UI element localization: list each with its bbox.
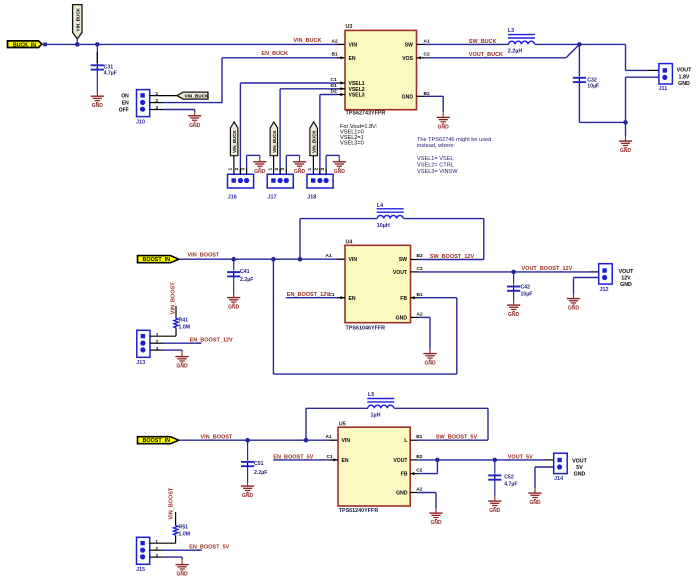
wire node to C32 bbox=[578, 44, 580, 76]
note For Vout bbox=[340, 124, 378, 147]
svg-text:U5: U5 bbox=[339, 422, 346, 428]
svg-text:3: 3 bbox=[156, 346, 159, 352]
capacitor C32 bbox=[573, 76, 586, 82]
svg-text:TPS62743YFPR: TPS62743YFPR bbox=[346, 111, 386, 117]
svg-text:VOUT_5V: VOUT_5V bbox=[508, 454, 533, 460]
op-amp U5 TPS61240YFFR bbox=[326, 422, 423, 514]
svg-text:1.8V: 1.8V bbox=[679, 74, 690, 80]
junction bbox=[511, 270, 516, 275]
connector J10 bbox=[119, 90, 159, 126]
inductor L3 bbox=[508, 28, 535, 54]
connector J11 bbox=[659, 64, 693, 92]
svg-text:EN_BOOST_12V: EN_BOOST_12V bbox=[190, 338, 233, 344]
flag VIN_BUCK at J16 bbox=[230, 122, 238, 156]
ground bbox=[429, 508, 442, 526]
svg-text:instead, where:: instead, where: bbox=[417, 143, 455, 149]
junction bbox=[245, 438, 250, 443]
svg-text:VIN_BOOST: VIN_BOOST bbox=[201, 435, 233, 441]
svg-text:VOUT_BOOST_12V: VOUT_BOOST_12V bbox=[522, 266, 573, 272]
svg-text:EN: EN bbox=[349, 56, 356, 62]
wire to C42 bbox=[513, 272, 515, 285]
svg-text:B1: B1 bbox=[416, 434, 422, 440]
svg-text:D1: D1 bbox=[331, 83, 337, 89]
svg-text:C2: C2 bbox=[416, 468, 422, 474]
svg-text:2.2µH: 2.2µH bbox=[508, 48, 523, 54]
ground bbox=[241, 481, 254, 499]
ground bbox=[253, 157, 266, 175]
svg-text:2: 2 bbox=[234, 168, 240, 171]
svg-text:EN_BUCK: EN_BUCK bbox=[261, 51, 288, 57]
ground bbox=[423, 348, 436, 366]
svg-text:FB: FB bbox=[401, 472, 408, 478]
wire SW_BOOST_12V bbox=[411, 259, 484, 261]
svg-text:GND: GND bbox=[620, 282, 632, 288]
svg-text:VIN: VIN bbox=[342, 438, 351, 444]
svg-text:R41: R41 bbox=[179, 318, 189, 324]
svg-text:1: 1 bbox=[267, 168, 273, 171]
svg-text:C2: C2 bbox=[424, 51, 430, 57]
wire VOUT_BOOST_12V bbox=[411, 271, 599, 273]
wire J10 pin3 to gnd bbox=[150, 110, 195, 112]
svg-text:J17: J17 bbox=[268, 194, 277, 200]
wire VIN_BOOST main bbox=[179, 439, 330, 441]
svg-text:EN_BOOST_12V: EN_BOOST_12V bbox=[287, 292, 330, 298]
svg-text:TPS61240YFFR: TPS61240YFFR bbox=[339, 508, 379, 514]
flag VIN_BUCK at J17 bbox=[270, 122, 278, 156]
svg-text:EN_BOOST_5V: EN_BOOST_5V bbox=[189, 545, 229, 551]
wire J13 pin2 EN_BOOST_12V bbox=[150, 342, 202, 344]
svg-text:VOS: VOS bbox=[402, 56, 413, 62]
svg-text:OFF: OFF bbox=[119, 108, 129, 114]
svg-text:VIN_BOOST: VIN_BOOST bbox=[188, 253, 220, 259]
svg-text:10µF: 10µF bbox=[521, 291, 533, 297]
svg-text:VIN_BUCK: VIN_BUCK bbox=[312, 130, 317, 153]
svg-text:1: 1 bbox=[155, 539, 158, 545]
wire U3 GND pin bbox=[417, 96, 444, 112]
svg-text:VOUT: VOUT bbox=[677, 68, 692, 74]
ground bbox=[507, 300, 520, 318]
svg-text:VOUT: VOUT bbox=[393, 270, 408, 276]
svg-text:VIN_BUCK: VIN_BUCK bbox=[185, 94, 210, 99]
svg-text:FB: FB bbox=[400, 296, 407, 302]
svg-text:2: 2 bbox=[314, 168, 320, 171]
svg-text:A2: A2 bbox=[332, 38, 338, 44]
ground bbox=[619, 136, 632, 154]
wire VSEL1 bbox=[240, 81, 345, 174]
svg-text:TPS61046YFFR: TPS61046YFFR bbox=[346, 326, 386, 332]
wire J13 pin3 to gnd bbox=[150, 350, 182, 351]
inductor L4 bbox=[377, 203, 404, 229]
svg-text:J11: J11 bbox=[659, 86, 668, 92]
svg-text:BOOST_IN: BOOST_IN bbox=[143, 438, 171, 444]
ground bbox=[488, 496, 501, 514]
svg-text:VOUT: VOUT bbox=[572, 458, 587, 464]
junction bbox=[75, 42, 80, 47]
wire C31 to gnd bbox=[96, 70, 98, 91]
svg-text:J15: J15 bbox=[136, 567, 145, 573]
svg-text:C32: C32 bbox=[587, 77, 597, 83]
wire L5 branch bbox=[306, 408, 488, 440]
svg-text:3: 3 bbox=[240, 168, 246, 171]
svg-text:5V: 5V bbox=[576, 465, 583, 471]
wire VOUT_BUCK (VOS) bbox=[417, 44, 580, 59]
wire EN_BUCK from J10 pin2 bbox=[150, 56, 345, 103]
svg-text:3: 3 bbox=[155, 553, 158, 559]
svg-text:J14: J14 bbox=[554, 476, 563, 482]
svg-text:VSEL3= VINSW: VSEL3= VINSW bbox=[417, 169, 458, 175]
capacitor C52 bbox=[488, 474, 501, 480]
junction bbox=[231, 257, 236, 262]
svg-text:B2: B2 bbox=[417, 253, 423, 259]
svg-text:VOUT_BUCK: VOUT_BUCK bbox=[469, 52, 503, 58]
svg-text:R51: R51 bbox=[179, 525, 189, 531]
svg-text:1.0M: 1.0M bbox=[179, 324, 191, 330]
port BUCK_IN bbox=[8, 41, 48, 48]
connector J17 bbox=[267, 155, 293, 200]
wire VIN_BOOST main bbox=[179, 258, 337, 260]
wire FB loop bbox=[273, 259, 456, 374]
svg-text:VIN_BUCK: VIN_BUCK bbox=[272, 130, 277, 153]
wire J15 pin2 EN_BOOST_5V bbox=[150, 549, 202, 551]
svg-text:EN: EN bbox=[349, 296, 356, 302]
junction bbox=[95, 42, 100, 47]
svg-text:12V: 12V bbox=[621, 276, 631, 282]
svg-text:VIN: VIN bbox=[349, 257, 358, 263]
connector J16 bbox=[228, 155, 254, 200]
svg-text:VOUT: VOUT bbox=[619, 269, 634, 275]
svg-text:J12: J12 bbox=[600, 287, 609, 293]
vertical net VIN_BOOST at R41 bbox=[171, 282, 177, 318]
svg-text:SW: SW bbox=[405, 42, 413, 48]
wire L4 branch bbox=[300, 219, 484, 260]
ground bbox=[188, 111, 201, 129]
wire EN_BOOST_5V to U5 EN bbox=[273, 458, 338, 461]
svg-text:BUCK_IN: BUCK_IN bbox=[13, 42, 36, 48]
svg-text:2.2µF: 2.2µF bbox=[240, 277, 253, 283]
svg-text:BOOST_IN: BOOST_IN bbox=[143, 257, 171, 263]
svg-text:VSEL3=0: VSEL3=0 bbox=[340, 141, 364, 147]
svg-text:VIN: VIN bbox=[349, 42, 358, 48]
flag VIN_BUCK top bbox=[73, 5, 82, 45]
svg-text:A1: A1 bbox=[326, 253, 332, 259]
junction bbox=[623, 120, 628, 125]
svg-text:3: 3 bbox=[320, 168, 326, 171]
port BOOST_IN bbox=[138, 437, 179, 445]
svg-text:GND: GND bbox=[396, 316, 408, 322]
wire to C51 bbox=[247, 440, 249, 460]
wire node to J11 pin1 bbox=[579, 44, 659, 70]
wire J15 pin1 to R51 bbox=[150, 542, 176, 544]
resistor R51 bbox=[173, 525, 190, 544]
svg-text:C42: C42 bbox=[521, 284, 531, 290]
capacitor C31 bbox=[91, 64, 104, 70]
op-amp U4 TPS61046YFFR bbox=[326, 240, 423, 332]
resistor R41 bbox=[174, 318, 190, 337]
ground bbox=[91, 91, 104, 109]
wire to C31 bbox=[96, 44, 98, 63]
wire U4 GND pin bbox=[411, 317, 431, 348]
svg-text:L5: L5 bbox=[368, 392, 374, 398]
connector J18 bbox=[307, 155, 333, 200]
svg-text:GND: GND bbox=[678, 81, 690, 87]
pin stub U5 VIN bbox=[330, 439, 338, 441]
wire VSEL3 bbox=[320, 93, 345, 174]
svg-text:1: 1 bbox=[228, 168, 234, 171]
svg-text:VIN_BUCK: VIN_BUCK bbox=[232, 130, 237, 153]
svg-text:2: 2 bbox=[274, 168, 280, 171]
svg-text:4.7µF: 4.7µF bbox=[504, 482, 517, 488]
ground bbox=[567, 293, 580, 311]
wire SW_BOOST_5V (L pin) bbox=[410, 439, 488, 441]
wire to C52 bbox=[494, 460, 496, 474]
svg-text:SW_BUCK: SW_BUCK bbox=[469, 39, 497, 45]
svg-text:C41: C41 bbox=[240, 269, 250, 275]
svg-text:10µF: 10µF bbox=[587, 84, 599, 90]
junction bbox=[493, 458, 498, 463]
ground bbox=[293, 157, 306, 175]
wire FB to VOUT node bbox=[410, 460, 437, 475]
wire J15 pin3 to gnd bbox=[150, 557, 182, 559]
wire J14 pin2 to gnd bbox=[535, 467, 554, 488]
svg-text:U3: U3 bbox=[346, 24, 353, 30]
svg-text:C51: C51 bbox=[254, 461, 264, 467]
ground bbox=[175, 351, 188, 369]
svg-text:L: L bbox=[404, 438, 407, 444]
wire L3 to output node bbox=[535, 43, 579, 45]
svg-text:C1: C1 bbox=[331, 77, 337, 83]
wire J12 pin2 to gnd bbox=[574, 278, 599, 294]
junction bbox=[271, 257, 276, 262]
svg-text:1: 1 bbox=[307, 168, 313, 171]
svg-text:SW_BOOST_12V: SW_BOOST_12V bbox=[430, 254, 475, 260]
wire VSEL2 bbox=[280, 87, 345, 174]
junction output node bbox=[577, 42, 582, 47]
wire C52 to gnd bbox=[494, 480, 496, 496]
svg-text:VOUT: VOUT bbox=[393, 458, 408, 464]
wire C32 bottom loop bbox=[579, 77, 659, 136]
svg-text:2: 2 bbox=[155, 546, 158, 552]
wire U5 GND pin bbox=[410, 493, 436, 509]
svg-text:J10: J10 bbox=[136, 119, 145, 125]
svg-text:VIN_BUCK: VIN_BUCK bbox=[76, 7, 81, 31]
svg-text:ON: ON bbox=[121, 94, 129, 100]
svg-text:VIN_BOOST: VIN_BOOST bbox=[169, 487, 175, 519]
svg-text:J18: J18 bbox=[307, 194, 316, 200]
svg-text:GND: GND bbox=[396, 491, 408, 497]
svg-text:EN_BOOST_5V: EN_BOOST_5V bbox=[273, 454, 313, 460]
wire C41 to gnd bbox=[233, 276, 235, 292]
ground bbox=[176, 559, 189, 577]
wire J16 pin3 to gnd bbox=[247, 155, 260, 156]
port BOOST_IN bbox=[138, 256, 179, 264]
flag VIN_BUCK at J10 bbox=[177, 92, 209, 99]
svg-text:2: 2 bbox=[156, 339, 159, 345]
svg-text:1µH: 1µH bbox=[371, 413, 381, 419]
svg-text:GND: GND bbox=[574, 472, 586, 478]
svg-text:A1: A1 bbox=[326, 434, 332, 440]
svg-text:EN: EN bbox=[122, 101, 129, 107]
inductor L5 bbox=[367, 392, 394, 419]
capacitor C41 bbox=[227, 271, 240, 277]
svg-text:GND: GND bbox=[402, 94, 414, 100]
svg-text:B1: B1 bbox=[332, 51, 338, 57]
svg-text:VIN_BUCK: VIN_BUCK bbox=[293, 38, 321, 44]
svg-text:2.2µF: 2.2µF bbox=[254, 470, 267, 476]
pin stub U4 VIN bbox=[337, 258, 345, 260]
vertical net VIN_BOOST at R51 bbox=[169, 487, 176, 525]
wire J17 pin3 to gnd bbox=[286, 155, 299, 156]
svg-text:3: 3 bbox=[280, 168, 286, 171]
note TPS62746 bbox=[417, 137, 491, 175]
svg-text:10µH: 10µH bbox=[377, 223, 390, 229]
wire EN_BOOST_12V to U4 EN bbox=[286, 296, 345, 299]
wire C42 to gnd bbox=[513, 291, 515, 300]
svg-text:L3: L3 bbox=[508, 28, 514, 34]
junction bbox=[435, 458, 440, 463]
svg-text:VSEL2= CTRL: VSEL2= CTRL bbox=[417, 163, 454, 169]
svg-text:A1: A1 bbox=[424, 38, 430, 44]
wire J13 pin1 to R41 bbox=[150, 335, 176, 337]
wire SW_BUCK bbox=[417, 43, 509, 45]
svg-text:L4: L4 bbox=[377, 203, 383, 209]
svg-text:4.7µF: 4.7µF bbox=[104, 70, 117, 76]
connector J14 bbox=[554, 453, 588, 482]
capacitor C51 bbox=[241, 461, 254, 467]
svg-text:SW_BOOST_5V: SW_BOOST_5V bbox=[436, 435, 478, 441]
ground bbox=[333, 157, 346, 175]
svg-text:SW: SW bbox=[399, 257, 407, 263]
ground bbox=[437, 112, 450, 130]
svg-text:1: 1 bbox=[156, 332, 159, 338]
wire to C41 bbox=[233, 259, 235, 270]
ground bbox=[227, 292, 240, 310]
svg-text:U4: U4 bbox=[346, 240, 353, 246]
junction bbox=[304, 438, 309, 443]
svg-text:J13: J13 bbox=[136, 360, 145, 366]
capacitor C42 bbox=[507, 285, 520, 291]
op-amp U3 TPS62743YFPR bbox=[331, 24, 430, 116]
junction bbox=[298, 257, 303, 262]
svg-text:VSEL3: VSEL3 bbox=[349, 93, 365, 99]
wire J18 pin3 to gnd bbox=[326, 155, 339, 156]
connector J13 bbox=[136, 330, 158, 366]
flag VIN_BUCK at J18 bbox=[310, 122, 318, 156]
ground bbox=[528, 488, 541, 506]
connector J12 bbox=[599, 264, 634, 293]
pin stub U3 VIN bbox=[337, 43, 345, 45]
svg-text:VSEL1= VSEL: VSEL1= VSEL bbox=[417, 156, 454, 162]
svg-text:A2: A2 bbox=[416, 486, 422, 492]
svg-text:1.0M: 1.0M bbox=[179, 531, 191, 537]
wire VIN_BUCK main bbox=[46, 43, 337, 45]
connector J15 bbox=[136, 537, 158, 573]
svg-text:EN: EN bbox=[342, 458, 349, 464]
svg-text:C52: C52 bbox=[504, 475, 514, 481]
svg-text:The TPS62746 might be used: The TPS62746 might be used bbox=[417, 137, 491, 143]
svg-text:J16: J16 bbox=[228, 194, 237, 200]
wire J10 pin1 bbox=[150, 95, 177, 97]
wire VOUT_5V bbox=[410, 459, 554, 461]
wire C51 to gnd bbox=[247, 466, 249, 481]
